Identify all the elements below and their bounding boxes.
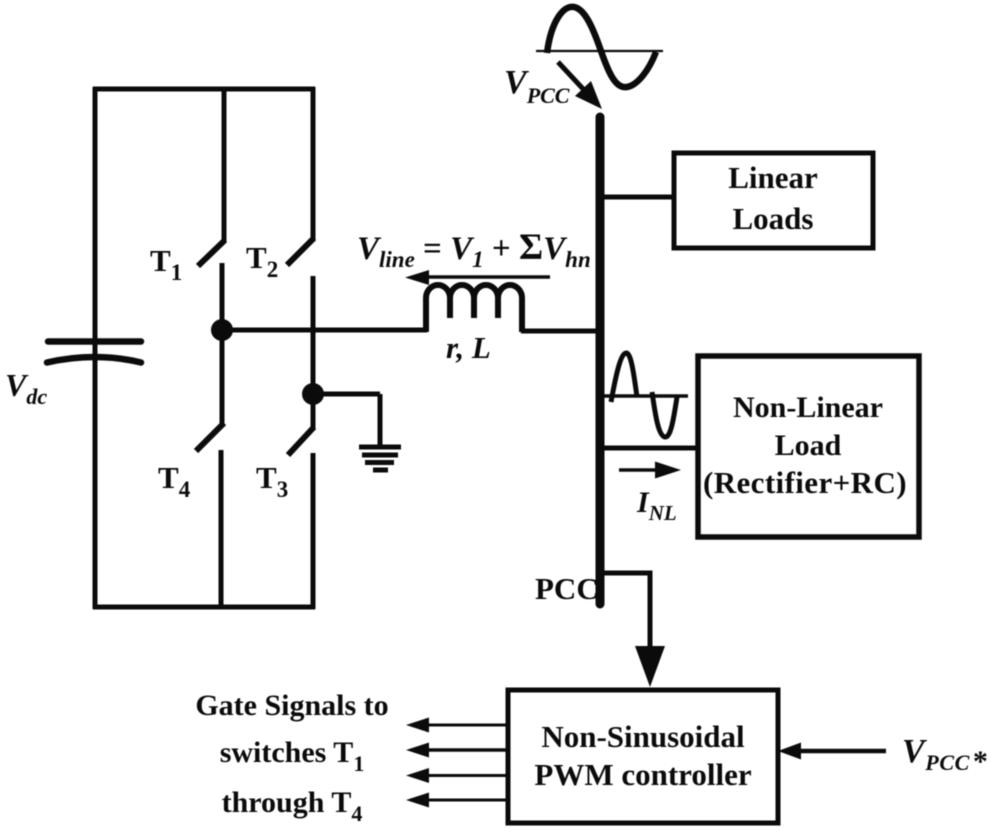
wire: T1 upper lead: [222, 87, 227, 242]
wire: node to T3: [311, 394, 316, 428]
arrow: gate signal 3: [427, 774, 508, 777]
waveform: distorted current pulses: [611, 353, 677, 437]
svg-text:PWM controller: PWM controller: [534, 757, 751, 792]
PCC bus bar: [596, 117, 605, 604]
wire: T4 lower lead: [219, 450, 224, 609]
arrow: I_NL: [619, 468, 658, 472]
arrow: into PWM controller: [635, 646, 665, 687]
waveform: sinusoid Vpcc: [547, 7, 656, 87]
svg-text:r, L: r, L: [446, 330, 491, 365]
svg-text:PCC: PCC: [535, 571, 599, 606]
capacitor Vdc bottom plate (curved): [47, 357, 141, 363]
svg-text:Gate Signals to: Gate Signals to: [195, 689, 388, 722]
switch T1 blade: [198, 240, 225, 266]
switch T2 blade: [287, 238, 314, 265]
svg-text:Linear: Linear: [728, 160, 818, 195]
wire: T2 upper lead: [311, 87, 316, 240]
inductor coil tails: [450, 298, 498, 318]
wire: T3 lower lead: [311, 453, 316, 609]
arrow: Vpcc pointer to bus: [558, 62, 585, 91]
wire: ground branch horizontal: [313, 392, 380, 397]
svg-text:(Rectifier+RC): (Rectifier+RC): [703, 465, 907, 500]
waveform: sinusoid axis at top: [536, 50, 663, 52]
wire: PCC tap to controller: [600, 573, 650, 648]
wire: inverter output to inductor: [222, 328, 427, 333]
arrow: gate signal 2: [427, 748, 508, 752]
ground symbol: [359, 447, 401, 470]
arrow: Vline direction: [405, 270, 550, 285]
wire: T1 lower lead to node: [220, 263, 225, 332]
node: T3 / ground junction (dot): [302, 383, 324, 405]
block: Non-Linear Load box: [698, 356, 919, 537]
wire: bus to Linear Loads: [600, 195, 675, 200]
wire: DC bus top rail: [93, 87, 315, 92]
switch T4 blade: [196, 423, 224, 451]
capacitor Vdc top plate: [48, 338, 141, 345]
wire: bus to Non-Linear Load: [600, 446, 699, 451]
block: Linear Loads box: [674, 153, 873, 248]
wire: T2 lower lead through crossover to T3 node: [311, 276, 316, 396]
block: Non-Sinusoidal PWM controller box: [508, 690, 778, 823]
arrow: Vpcc* reference input: [797, 749, 886, 754]
node: inverter output junction (dot): [211, 319, 233, 341]
wire: ground branch vertical: [378, 394, 383, 446]
switch T3 blade: [288, 427, 314, 455]
svg-text:Non-Linear: Non-Linear: [733, 391, 883, 424]
arrow: gate signal 1: [427, 724, 508, 727]
svg-text:Loads: Loads: [733, 201, 814, 236]
svg-text:Load: Load: [775, 429, 842, 462]
wire: inductor to PCC bus: [521, 329, 602, 334]
arrow: gate signal 4: [427, 799, 508, 802]
wire: node to T4: [220, 330, 225, 424]
wire: left leg (Vdc branch, top rail to bottom rail): [93, 87, 98, 609]
svg-text:Non-Sinusoidal: Non-Sinusoidal: [541, 719, 745, 754]
waveform: distorted current axis: [602, 394, 688, 398]
inductor r,L coil: [426, 285, 522, 332]
wire: DC bus bottom rail: [93, 605, 315, 610]
